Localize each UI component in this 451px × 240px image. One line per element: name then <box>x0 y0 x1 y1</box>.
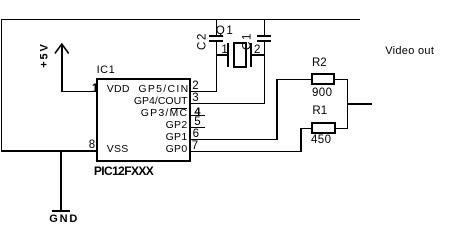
wire: output junction vertical <box>347 79 349 129</box>
crystal pin number 2 <box>254 45 260 57</box>
wire: video output stub <box>347 103 372 105</box>
pin number 5 <box>194 117 200 129</box>
capacitor C2 label (rotated) <box>197 32 209 50</box>
wire: pin 5 stub <box>189 127 205 129</box>
pin number 8 <box>89 140 95 152</box>
wire: GND stem <box>60 151 62 210</box>
IC1 reference label <box>97 65 116 76</box>
wire: crystal right connector <box>252 54 265 56</box>
wire: pin 7 to R1 <box>189 151 302 153</box>
+5V arrowhead <box>53 43 71 56</box>
capacitor C2 top plate <box>209 35 224 37</box>
wire: pin 3 to crystal right <box>189 103 265 105</box>
wire: left vertical bus <box>1 19 3 152</box>
resistor R2 value 900 <box>312 88 332 100</box>
pin number 1 (bold) <box>92 84 98 96</box>
wire: R2 left vertical <box>276 79 278 140</box>
wire: crystal-left / C2 vertical <box>216 42 218 91</box>
IC1 pin name VSS <box>107 144 129 155</box>
IC1 pin name GP5/CIN <box>138 84 189 95</box>
wire: pin 6 to R2 <box>189 139 278 141</box>
crystal Q1 label <box>216 26 234 38</box>
wire: crystal-right / C1 vertical <box>264 42 266 104</box>
IC1 pin name GP0 <box>166 144 188 155</box>
wire: crystal left connector <box>216 54 228 56</box>
crystal Q1 body <box>233 42 247 68</box>
IC1 pin name GP1 <box>166 132 188 143</box>
overline bar above MC <box>171 108 187 109</box>
crystal Q1 right plate <box>250 43 252 68</box>
IC1 body outline <box>96 78 191 161</box>
wire: R2 left horizontal <box>276 79 311 81</box>
capacitor C1 top plate <box>257 35 272 37</box>
wire: pin 4 stub <box>189 115 205 117</box>
resistor R1 body <box>311 122 336 134</box>
capacitor C1 bottom plate <box>257 40 272 42</box>
crystal pin number 1 <box>221 45 227 57</box>
resistor R2 body <box>311 73 335 85</box>
pin number 4 (bold) <box>194 107 200 118</box>
wire: C1 top stem <box>264 19 266 36</box>
wire: top supply rail <box>1 19 360 21</box>
IC1 value label PIC12FXXX <box>94 165 153 177</box>
IC1 pin name GP2 <box>166 120 188 131</box>
capacitor C2 bottom plate <box>209 40 224 42</box>
wire: pin 1 VDD wire <box>61 91 96 93</box>
IC1 pin name GP4/COUT <box>134 96 188 107</box>
resistor R1 value 450 <box>311 135 331 147</box>
wire: R1 left horizontal <box>300 128 311 130</box>
IC1 pin name VDD <box>107 84 130 95</box>
+5V label (rotated) <box>40 43 51 69</box>
wire: pin 2 to crystal left <box>189 91 217 93</box>
resistor R2 label <box>312 58 327 70</box>
wire: R1 left vertical <box>300 128 302 153</box>
node label Video out <box>385 46 434 57</box>
capacitor C1 label (rotated) <box>242 32 254 50</box>
pin number 2 <box>192 81 198 93</box>
ground bar <box>52 210 71 213</box>
wire: R2 right horizontal <box>335 79 348 81</box>
resistor R1 label <box>312 106 327 118</box>
wire: R1 right horizontal <box>336 128 349 130</box>
wire: +5V vertical <box>61 45 63 93</box>
crystal Q1 left plate <box>227 43 229 68</box>
wire: C2 top stem <box>216 19 218 36</box>
IC1 pin name GP3/MC <box>141 108 188 119</box>
pin number 6 <box>193 129 199 141</box>
ground label GND <box>49 214 79 225</box>
pin number 7 <box>192 141 198 153</box>
pin number 3 <box>192 93 198 105</box>
wire: bottom horizontal to VSS pin 8 <box>1 150 96 152</box>
